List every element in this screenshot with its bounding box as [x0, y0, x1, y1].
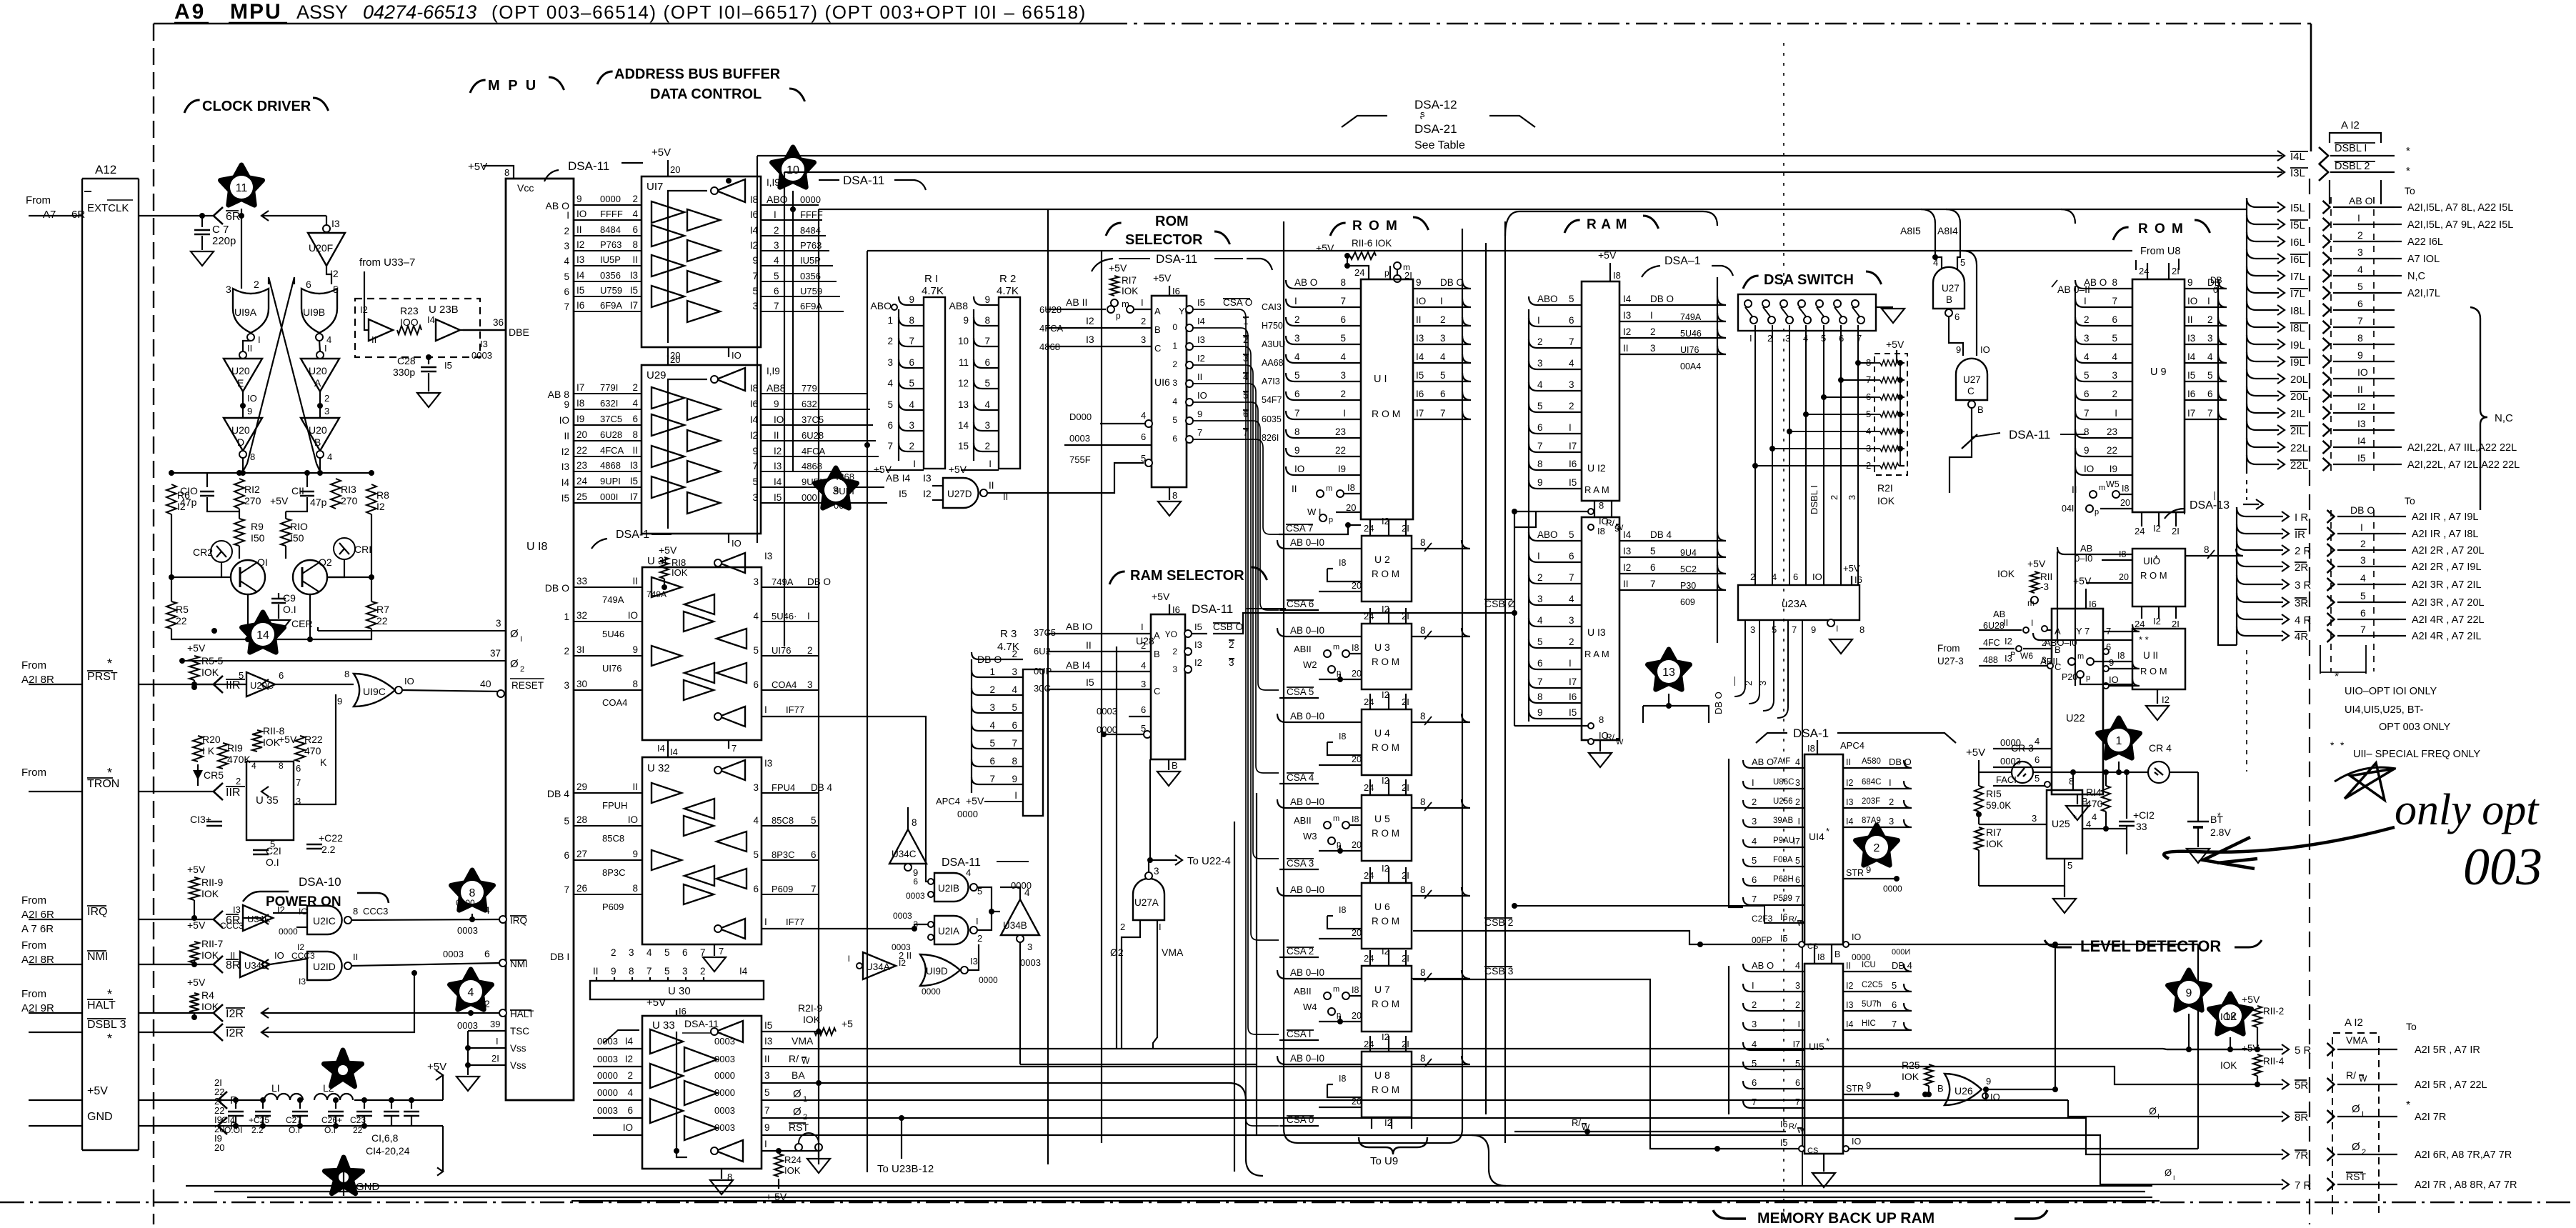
- svg-text:I3: I3: [1846, 1000, 1853, 1010]
- svg-text:3: 3: [1752, 1019, 1757, 1029]
- svg-text:11: 11: [236, 182, 248, 194]
- resistor R10 150: [281, 519, 291, 546]
- svg-text:R22: R22: [304, 734, 323, 745]
- svg-text:*: *: [2406, 165, 2410, 177]
- buffer in U23B: [369, 319, 393, 341]
- svg-text:3: 3: [1141, 679, 1146, 689]
- connector row I7Lbar: [2247, 284, 2279, 293]
- svg-text:8484: 8484: [800, 225, 821, 236]
- U16 outputs CSA: [1186, 306, 1193, 313]
- svg-text:9: 9: [963, 315, 969, 326]
- svg-text:A9: A9: [174, 0, 206, 24]
- svg-text:To U23B-12: To U23B-12: [877, 1163, 934, 1175]
- svg-text:7: 7: [647, 966, 652, 977]
- handwritten star doodle: [2345, 763, 2395, 800]
- svg-text:14: 14: [958, 420, 969, 431]
- connector row 2Rbar: [2237, 557, 2283, 566]
- svg-text:U I2: U I2: [1587, 462, 1606, 474]
- capacitor C11 47p: [306, 473, 308, 487]
- svg-text:DSBL I: DSBL I: [1809, 485, 1819, 514]
- U13 ground: [1599, 740, 1601, 752]
- svg-text:YO: YO: [1165, 629, 1177, 639]
- U9 left pin rows: [2075, 280, 2132, 289]
- capacitor C22 2.2: [306, 844, 322, 845]
- svg-text:From: From: [21, 988, 46, 1000]
- svg-text:I2: I2: [774, 446, 782, 456]
- svg-text:CI4: CI4: [221, 1115, 235, 1125]
- svg-text:2: 2: [1750, 571, 1755, 582]
- svg-text:2: 2: [324, 393, 329, 404]
- svg-text:6: 6: [627, 1105, 633, 1116]
- svg-text:I: I: [1343, 408, 1346, 419]
- svg-text:U2IA: U2IA: [938, 926, 959, 937]
- svg-text:I: I: [2173, 1174, 2175, 1182]
- svg-text:20: 20: [1352, 840, 1362, 850]
- svg-text:IOK: IOK: [1877, 495, 1895, 506]
- svg-text:IO: IO: [1980, 344, 1990, 355]
- svg-text:II: II: [1416, 314, 1422, 325]
- svg-text:U2IC: U2IC: [313, 915, 336, 927]
- svg-text:I6: I6: [1569, 692, 1577, 702]
- svg-text:PRST: PRST: [87, 671, 118, 683]
- svg-text:9: 9: [2357, 349, 2363, 361]
- svg-text:+5V: +5V: [87, 1085, 108, 1097]
- section title MPU: [470, 80, 486, 93]
- svg-text:O.I: O.I: [283, 604, 296, 615]
- svg-text:20: 20: [2120, 498, 2130, 508]
- svg-text:A2I 3R , A7 20L: A2I 3R , A7 20L: [2412, 597, 2485, 609]
- star 2: [1856, 825, 1898, 865]
- svg-text:6: 6: [296, 763, 301, 774]
- svg-text:20: 20: [576, 429, 587, 440]
- svg-text:R I: R I: [924, 273, 938, 285]
- svg-text:04II: 04II: [2062, 504, 2077, 514]
- svg-text:I4: I4: [774, 476, 782, 487]
- svg-text:APC4: APC4: [936, 796, 960, 807]
- svg-text:2: 2: [1537, 336, 1543, 347]
- wire U20F out to U19B pin5: [326, 266, 331, 284]
- U9 DB bus vertical: [2218, 286, 2237, 645]
- U14 U15 pins 18 8: [1814, 944, 1815, 964]
- svg-text:I: I: [1889, 777, 1892, 788]
- CLOCK DRIVER section title: [184, 100, 200, 113]
- svg-text:6: 6: [1955, 311, 1960, 322]
- right ROM AB bus vertical: [2075, 286, 2076, 686]
- svg-text:5: 5: [1650, 546, 1656, 556]
- svg-text:2: 2: [627, 1070, 633, 1081]
- svg-text:6: 6: [753, 884, 759, 894]
- MPU HALT pin 2: [499, 1009, 506, 1017]
- svg-text:IO: IO: [2084, 464, 2094, 474]
- U14 box: [1804, 754, 1843, 944]
- u23A box: [1738, 585, 1859, 620]
- MEMORY BACK UP RAM label: [1713, 1210, 1746, 1219]
- svg-text:I8L: I8L: [2290, 305, 2305, 317]
- svg-text:I4: I4: [561, 477, 570, 488]
- svg-text:3: 3: [807, 679, 813, 690]
- svg-text:26: 26: [576, 883, 587, 894]
- NOR U19D: [920, 954, 960, 986]
- star 1: [2098, 718, 2140, 758]
- svg-text:3: 3: [774, 240, 779, 251]
- svg-text:II: II: [371, 334, 376, 345]
- svg-text:+5V: +5V: [1598, 249, 1617, 261]
- long line AB0 y293: [819, 209, 2247, 210]
- svg-text:9: 9: [632, 849, 638, 859]
- svg-text:From: From: [26, 194, 51, 206]
- svg-text:6: 6: [632, 414, 638, 424]
- svg-text:I3: I3: [2005, 653, 2012, 664]
- svg-text:+5V: +5V: [2242, 994, 2260, 1005]
- svg-text:A2I,22L, A7 I2L,A22 22L: A2I,22L, A7 I2L,A22 22L: [2407, 459, 2520, 471]
- svg-text:I: I: [1537, 315, 1540, 326]
- svg-text:U25: U25: [2052, 818, 2070, 829]
- svg-text:RII-6 IOK: RII-6 IOK: [1352, 238, 1392, 249]
- svg-text:*: *: [2406, 145, 2410, 157]
- svg-text:22: 22: [176, 615, 187, 627]
- svg-text:8: 8: [1420, 1053, 1426, 1064]
- svg-text:*: *: [2340, 739, 2345, 751]
- ROM SELECTOR title: [1106, 223, 1122, 236]
- svg-text:RI4: RI4: [2086, 787, 2102, 798]
- ROM U11 box: [2132, 629, 2185, 689]
- svg-text:A2I,22L, A7 IIL,A22 22L: A2I,22L, A7 IIL,A22 22L: [2407, 442, 2517, 454]
- svg-text:2: 2: [1795, 797, 1800, 807]
- svg-text:3: 3: [1537, 594, 1543, 604]
- svg-text:9: 9: [1986, 1076, 1991, 1087]
- svg-text:+C25: +C25: [249, 1115, 269, 1125]
- svg-text:I4: I4: [1623, 294, 1632, 304]
- svg-text:4 R: 4 R: [2295, 614, 2312, 627]
- svg-text:6F9A: 6F9A: [600, 300, 622, 311]
- svg-text:II: II: [1623, 579, 1629, 589]
- svg-text:U29: U29: [647, 369, 667, 381]
- battery ground: [2187, 849, 2210, 863]
- U17 enable inverter: [717, 179, 745, 202]
- svg-text:I3: I3: [630, 460, 638, 471]
- svg-text:U 6: U 6: [1374, 901, 1390, 912]
- svg-text:3: 3: [682, 966, 688, 977]
- MPU IRQ pin 4: [499, 916, 506, 923]
- svg-text:m: m: [1333, 814, 1339, 823]
- svg-text:I: I: [764, 704, 767, 715]
- svg-text:5: 5: [1537, 401, 1543, 411]
- svg-text:U 32: U 32: [647, 762, 670, 774]
- svg-text:8: 8: [1012, 756, 1017, 767]
- svg-text:+5V: +5V: [659, 544, 677, 556]
- svg-text:Ø: Ø: [2352, 1103, 2360, 1115]
- svg-text:*: *: [2073, 813, 2077, 824]
- svg-text:I3: I3: [970, 956, 978, 967]
- svg-text:8: 8: [1294, 426, 1300, 437]
- svg-text:I5: I5: [1780, 934, 1787, 944]
- svg-text:I2R: I2R: [226, 1027, 244, 1039]
- svg-text:1: 1: [564, 611, 569, 622]
- svg-text:I5L: I5L: [2290, 219, 2305, 231]
- svg-text:003: 003: [2463, 838, 2542, 897]
- svg-text:4FCA: 4FCA: [802, 446, 826, 456]
- svg-text:*: *: [2155, 553, 2158, 564]
- svg-text:I5: I5: [2357, 452, 2366, 464]
- svg-text:B: B: [314, 436, 321, 448]
- U16 ground pin 8: [1169, 487, 1170, 500]
- svg-text:7: 7: [887, 441, 893, 451]
- svg-text:I: I: [1650, 310, 1653, 321]
- svg-text:5U46: 5U46: [1680, 329, 1702, 339]
- svg-text:I8: I8: [2122, 484, 2129, 494]
- svg-text:To: To: [2405, 185, 2415, 196]
- svg-text:A22 I6L: A22 I6L: [2407, 236, 2443, 248]
- svg-text:IOO: IOO: [400, 316, 419, 328]
- svg-text:II: II: [247, 343, 252, 354]
- MPU phi2 pin 37: [182, 660, 506, 662]
- svg-text:AB: AB: [2080, 543, 2092, 554]
- buffer U34A: [863, 952, 896, 979]
- diode CR2: [211, 541, 232, 562]
- svg-text:5: 5: [1440, 370, 1446, 381]
- svg-text:3: 3: [2112, 370, 2117, 381]
- svg-text:*: *: [1826, 826, 1829, 837]
- svg-text:+5: +5: [842, 1018, 853, 1029]
- NOR gate U19B: [301, 289, 337, 333]
- svg-text:6: 6: [2357, 298, 2363, 309]
- svg-text:I6: I6: [1780, 912, 1787, 922]
- DSA-21 crease line: [1783, 43, 1784, 293]
- svg-text:8: 8: [632, 429, 638, 440]
- svg-text:4.7K: 4.7K: [997, 285, 1019, 297]
- svg-text:2: 2: [984, 441, 990, 451]
- svg-text:ʂ: ʂ: [1420, 109, 1425, 119]
- svg-text:2I: 2I: [2172, 266, 2180, 276]
- svg-text:4: 4: [327, 451, 332, 462]
- svg-text:I: I: [520, 635, 522, 644]
- svg-text:U I8: U I8: [526, 541, 547, 553]
- svg-text:R O M: R O M: [1372, 569, 1399, 579]
- svg-text:DSA-11: DSA-11: [1192, 602, 1233, 616]
- svg-text:UI5: UI5: [1809, 1041, 1824, 1052]
- U17 enable vertical: [668, 191, 707, 343]
- ROM U1 box: [1361, 279, 1413, 519]
- svg-text:20L: 20L: [2290, 391, 2308, 403]
- svg-text:I8: I8: [1347, 482, 1355, 493]
- svg-text:RI7: RI7: [1986, 827, 2002, 838]
- svg-text:3: 3: [753, 782, 759, 793]
- svg-text:I2: I2: [923, 488, 932, 499]
- svg-text:E: E: [237, 377, 244, 389]
- svg-text:3: 3: [913, 919, 918, 929]
- svg-text:R O M: R O M: [2140, 570, 2167, 581]
- svg-text:R O M: R O M: [1372, 657, 1399, 667]
- svg-text:I9L: I9L: [2290, 339, 2305, 351]
- svg-text:684C: 684C: [1862, 778, 1882, 787]
- svg-text:IF77: IF77: [786, 704, 804, 715]
- svg-text:u23A: u23A: [1782, 598, 1807, 610]
- svg-text:R A M: R A M: [1587, 217, 1627, 232]
- svg-text:8: 8: [1537, 459, 1543, 469]
- svg-text:IIR: IIR: [226, 679, 240, 692]
- svg-text:4: 4: [1141, 410, 1146, 421]
- svg-text:I2: I2: [2162, 694, 2170, 705]
- svg-text:F09A: F09A: [1773, 856, 1793, 864]
- svg-text:3: 3: [1650, 343, 1656, 354]
- svg-text:4: 4: [984, 399, 990, 410]
- svg-text:VMA: VMA: [2346, 1034, 2368, 1046]
- svg-text:U 2: U 2: [1374, 554, 1390, 565]
- svg-text:0003: 0003: [714, 1122, 735, 1133]
- svg-text:AA68: AA68: [1262, 358, 1284, 368]
- svg-text:AB O: AB O: [1294, 277, 1317, 288]
- svg-text:4: 4: [1172, 396, 1177, 406]
- svg-text:HIC: HIC: [1862, 1019, 1876, 1028]
- svg-text:6: 6: [1340, 314, 1346, 325]
- svg-text:DB O: DB O: [2350, 504, 2375, 516]
- svg-text:AB O: AB O: [2349, 195, 2373, 206]
- svg-text:IO: IO: [1197, 390, 1207, 401]
- svg-text:13: 13: [958, 399, 969, 410]
- svg-text:I3: I3: [1846, 797, 1853, 807]
- svg-text:II: II: [989, 480, 994, 491]
- svg-text:I4: I4: [670, 747, 678, 757]
- RAM bus ring outer: [1504, 221, 1506, 1143]
- switch ground: [1876, 306, 1893, 308]
- svg-text:39: 39: [490, 1019, 500, 1029]
- svg-text:UI6: UI6: [1154, 376, 1170, 388]
- svg-text:7: 7: [732, 743, 737, 754]
- svg-text:2: 2: [1172, 647, 1177, 657]
- svg-text:I4: I4: [625, 1036, 634, 1047]
- svg-text:I6: I6: [1780, 1119, 1787, 1129]
- svg-text:I: I: [1798, 1019, 1800, 1029]
- svg-text:(OPT 003–66514) (OPT I0I–66517: (OPT 003–66514) (OPT I0I–66517) (OPT 003…: [491, 1, 1087, 23]
- svg-text:3: 3: [1569, 379, 1574, 390]
- CSA7 chip select: [1345, 522, 1351, 528]
- svg-text:3: 3: [1795, 778, 1800, 788]
- svg-text:6: 6: [279, 670, 284, 681]
- svg-text:A2I 8R: A2I 8R: [21, 954, 54, 966]
- svg-text:A2I 7R: A2I 7R: [2415, 1112, 2446, 1123]
- svg-text:CAI3: CAI3: [1262, 302, 1282, 312]
- svg-text:5C2: 5C2: [1680, 564, 1697, 574]
- svg-text:LI: LI: [271, 1082, 280, 1094]
- svg-text:CSA 3: CSA 3: [1287, 858, 1314, 869]
- svg-text:7: 7: [1012, 738, 1017, 749]
- wire U35 to U19C: [294, 694, 336, 804]
- svg-text:Ø: Ø: [2352, 1141, 2360, 1153]
- svg-text:I6: I6: [1416, 389, 1424, 399]
- svg-text:0003: 0003: [714, 1036, 735, 1047]
- svg-text:8: 8: [2357, 332, 2363, 344]
- U12 right pins: [1619, 296, 1726, 305]
- svg-text:A2I 5R , A7 22L: A2I 5R , A7 22L: [2415, 1079, 2487, 1091]
- svg-text:14: 14: [256, 629, 269, 642]
- svg-text:8: 8: [2204, 544, 2210, 555]
- svg-text:0003: 0003: [1069, 433, 1090, 444]
- svg-text:5: 5: [2084, 370, 2090, 381]
- U15 box: [1804, 964, 1843, 1154]
- svg-text:7: 7: [1569, 336, 1574, 347]
- svg-text:A2I,I7L: A2I,I7L: [2407, 288, 2440, 299]
- mid long rails lower: [929, 1049, 1117, 1050]
- output wires to bottom rail: [242, 458, 244, 473]
- U25 box: [2047, 790, 2082, 859]
- long wire RST: [819, 1135, 2283, 1184]
- svg-text:I4: I4: [1846, 817, 1853, 827]
- svg-text:2: 2: [1141, 316, 1146, 326]
- svg-text:8: 8: [912, 817, 917, 828]
- svg-text:U 7: U 7: [1374, 984, 1390, 995]
- svg-text:I3: I3: [764, 551, 772, 561]
- svg-text:I: I: [976, 916, 979, 927]
- svg-text:3: 3: [2357, 246, 2363, 258]
- svg-text:39AB: 39AB: [1773, 817, 1793, 825]
- inverter U20A: [319, 341, 320, 351]
- svg-text:24: 24: [1364, 782, 1374, 793]
- svg-text:23: 23: [2107, 426, 2117, 437]
- svg-text:2: 2: [1172, 359, 1177, 369]
- svg-text:W2: W2: [1303, 659, 1317, 670]
- svg-text:AB 0–I0: AB 0–I0: [1290, 797, 1324, 807]
- svg-text:I5: I5: [774, 492, 782, 503]
- svg-text:04274-66513: 04274-66513: [363, 1, 476, 23]
- svg-text:5: 5: [564, 271, 569, 282]
- svg-text:13: 13: [1662, 667, 1675, 679]
- svg-text:U34D: U34D: [244, 960, 268, 971]
- svg-text:I: I: [1569, 422, 1572, 433]
- svg-text:9U4: 9U4: [1680, 548, 1697, 558]
- svg-text:I2: I2: [576, 239, 584, 250]
- svg-text:ASSY: ASSY: [296, 1, 348, 23]
- MPU U18 box: [506, 179, 574, 1100]
- svg-text:*: *: [2335, 671, 2339, 683]
- svg-text:7: 7: [1440, 408, 1446, 419]
- svg-text:7: 7: [2207, 408, 2213, 419]
- svg-text:20: 20: [1352, 1097, 1362, 1107]
- svg-text:UI4: UI4: [1809, 831, 1824, 842]
- svg-text:4: 4: [2357, 264, 2363, 275]
- svg-text:2: 2: [254, 279, 259, 290]
- svg-text:6: 6: [2207, 389, 2213, 399]
- svg-text:O.I: O.I: [266, 857, 279, 868]
- svg-text:I3: I3: [1194, 639, 1202, 650]
- svg-text:22L: 22L: [2290, 459, 2308, 471]
- svg-text:Ø: Ø: [510, 658, 519, 670]
- wire PRST to U20C: [194, 684, 246, 685]
- svg-text:7: 7: [2360, 624, 2366, 635]
- svg-text:W4: W4: [1303, 1002, 1317, 1012]
- svg-text:2: 2: [803, 1113, 807, 1122]
- svg-text:U20: U20: [309, 365, 327, 376]
- svg-text:MEMORY BACK UP RAM: MEMORY BACK UP RAM: [1757, 1210, 1935, 1224]
- svg-text:I9L: I9L: [2290, 356, 2305, 369]
- svg-text:0000: 0000: [597, 1087, 618, 1098]
- svg-text:+5V: +5V: [187, 919, 206, 931]
- svg-text:I50: I50: [251, 532, 265, 544]
- svg-text:D: D: [237, 436, 244, 448]
- svg-text:See Table: See Table: [1414, 139, 1465, 151]
- svg-text:2I: 2I: [491, 1053, 499, 1064]
- svg-text:R/: R/: [1606, 518, 1615, 528]
- svg-text:6R: 6R: [71, 209, 85, 221]
- svg-text:8: 8: [1420, 625, 1426, 636]
- svg-text:IO: IO: [2109, 674, 2119, 685]
- svg-text:II: II: [1197, 371, 1202, 382]
- capacitor C13: [206, 821, 222, 822]
- svg-text:3: 3: [1569, 615, 1574, 626]
- U33 top inverter: [716, 1021, 743, 1042]
- svg-text:FPU4: FPU4: [772, 782, 795, 793]
- dashes between sections: [2246, 480, 2247, 500]
- svg-text:2.2: 2.2: [321, 844, 336, 855]
